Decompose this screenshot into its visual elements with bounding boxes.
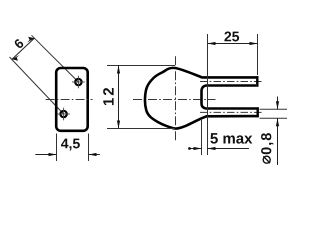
plate body rounded rect bbox=[56, 68, 87, 131]
value label 5 max bbox=[210, 133, 252, 143]
extension line 12 top bbox=[107, 65, 175, 67]
clip outer outline (body + prong outer edges), spline through measured points bbox=[145, 68, 258, 129]
top prong centerline bbox=[200, 81, 263, 83]
extension line 12 bottom bbox=[107, 128, 175, 130]
value label 12 (rotated) bbox=[103, 88, 113, 105]
bottom prong centerline bbox=[200, 111, 263, 113]
value label 4,5 bbox=[61, 139, 80, 151]
extension lines for 4,5 bbox=[56, 134, 58, 162]
value label 6 bbox=[13, 38, 24, 49]
dimension line 6 (diagonal, arrows outward) bbox=[12, 37, 34, 61]
extension line (45deg) through lower hole center bbox=[10, 57, 64, 114]
plate horizontal centerline bbox=[46, 99, 93, 101]
hole lower (with crosshair) bbox=[57, 108, 70, 121]
value label 25 bbox=[224, 32, 239, 42]
shared extension line (25 left / 5max right) at clip right tangent bbox=[207, 34, 209, 155]
clip mouth inner line + prong inner edges bbox=[202, 86, 257, 109]
dimension line 4,5 (outside arrows) bbox=[35, 153, 100, 156]
extension line (45deg) through upper hole center bbox=[32, 35, 79, 82]
extension lines dia 0,8 at bottom prong end bbox=[260, 108, 288, 110]
circle vertical centerline bbox=[175, 56, 177, 140]
dimension line dia 0,8 (outside arrows, vertical) bbox=[276, 97, 279, 166]
value label dia 0,8 (rotated, dia symbol drawn) bbox=[261, 133, 273, 163]
top prong end cap bbox=[256, 76, 258, 87]
dimension line 25 (inside arrows) bbox=[208, 42, 258, 45]
circle horizontal centerline bbox=[133, 99, 216, 101]
extension line 5max left (below mouth) bbox=[201, 120, 203, 155]
extension line 25 right (prong end) bbox=[257, 34, 259, 75]
bottom prong end cap bbox=[257, 107, 259, 117]
hole upper (with crosshair) bbox=[72, 76, 85, 89]
dimension line 12 (arrows outward at ends) bbox=[117, 66, 120, 129]
dimension 5 max (outside arrows + leader dot) bbox=[188, 147, 249, 150]
